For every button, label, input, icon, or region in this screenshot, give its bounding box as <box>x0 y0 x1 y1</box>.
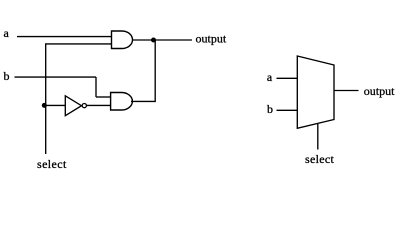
wire b into AND2 <box>96 96 111 98</box>
wire mux b input <box>277 109 298 111</box>
wire b horizontal <box>15 76 97 78</box>
wire inverter out to AND2 <box>86 104 110 106</box>
inverter U3 bubble <box>82 104 86 108</box>
svg-text:output: output <box>364 84 395 98</box>
wire mux a input <box>277 77 298 79</box>
wire b vertical drop <box>95 77 97 97</box>
mux U4 body <box>297 56 334 128</box>
svg-text:select: select <box>305 152 334 166</box>
svg-text:select: select <box>37 157 67 171</box>
wire select to inverter <box>46 104 66 106</box>
wire AND1 output <box>133 39 193 41</box>
wire AND2 output <box>131 40 155 101</box>
wire mux select stub <box>317 124 319 150</box>
node output junction dot <box>151 38 156 43</box>
wire a input to AND1 <box>17 36 112 38</box>
node select junction dot <box>42 103 47 108</box>
wire select vertical <box>46 44 112 154</box>
and-gate U1 <box>112 31 133 49</box>
svg-text:a: a <box>267 70 273 84</box>
svg-text:output: output <box>196 32 227 46</box>
svg-text:a: a <box>4 26 10 40</box>
and-gate U2 <box>111 93 133 111</box>
svg-text:b: b <box>4 69 10 83</box>
inverter U3 triangle <box>65 96 81 116</box>
wire mux output <box>334 90 359 92</box>
svg-text:b: b <box>267 102 273 116</box>
